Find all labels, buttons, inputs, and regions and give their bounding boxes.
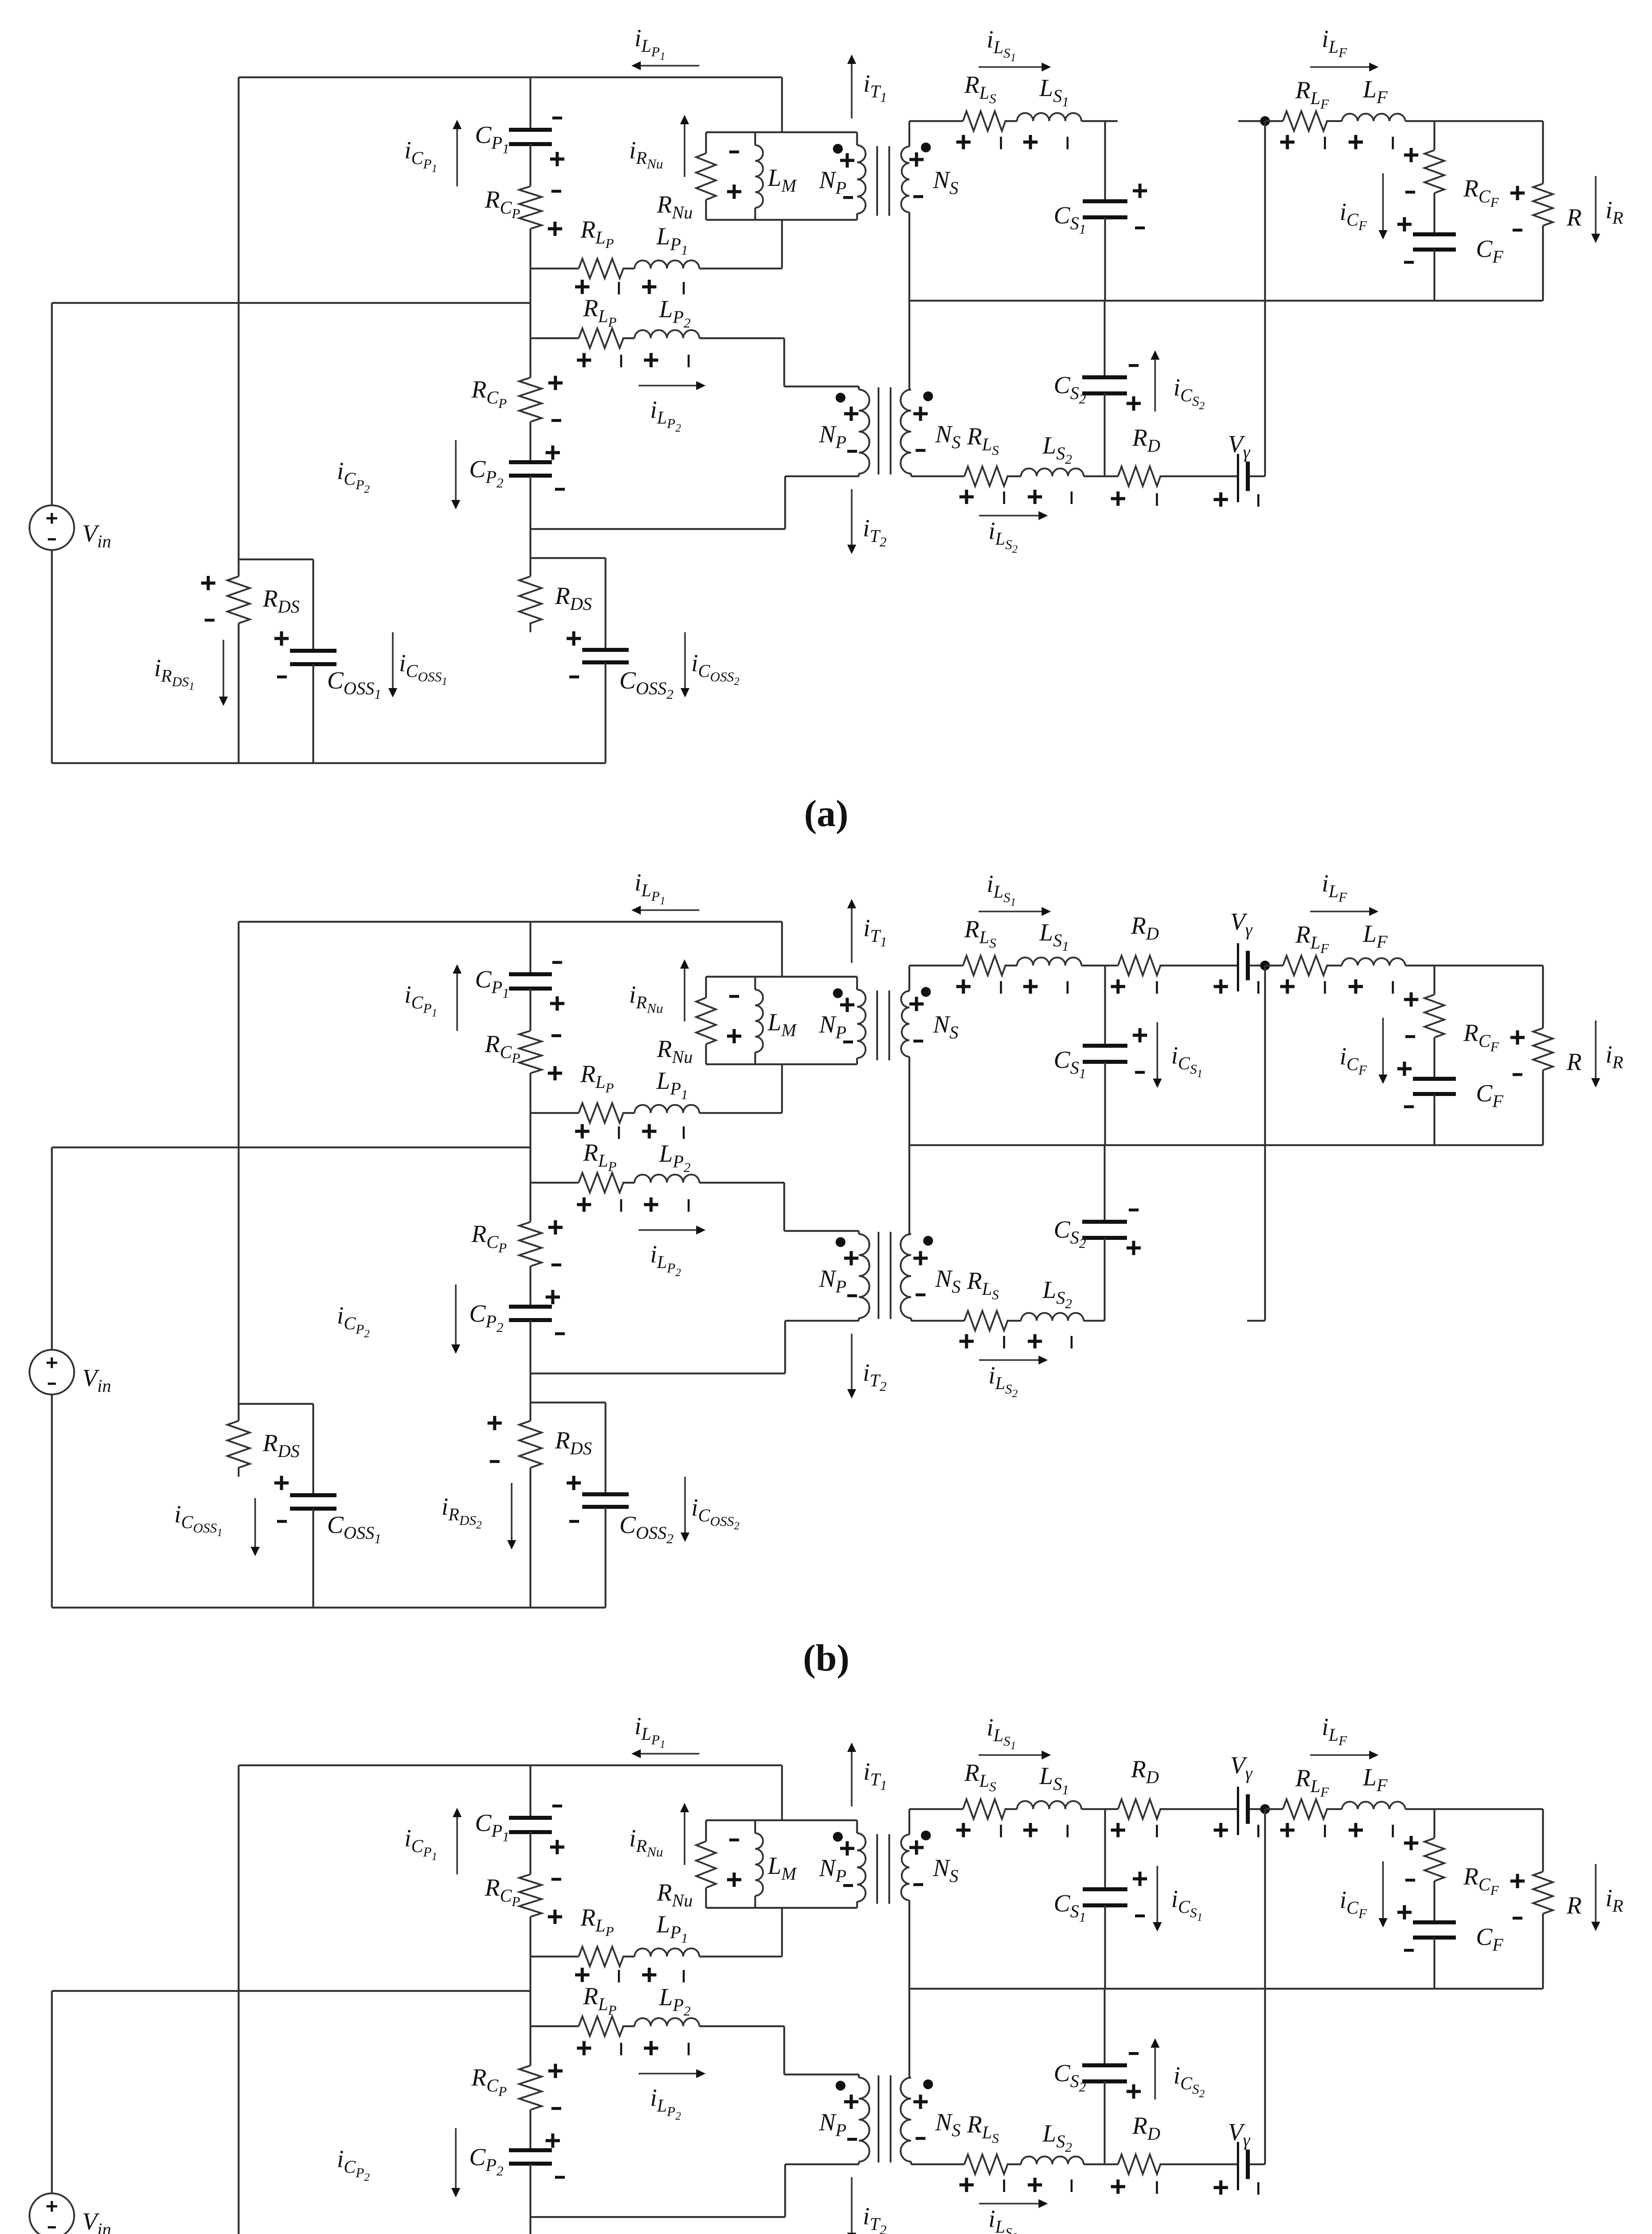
wire left leg vertical (switch 1 branch) bbox=[238, 922, 240, 1421]
resistor R (load) bbox=[1533, 1028, 1553, 1070]
wire row2 from chain bbox=[530, 2025, 579, 2027]
wire chain top (C_P1 branch) bbox=[530, 77, 531, 130]
wire R_D to V_gamma (top) bbox=[1160, 965, 1237, 966]
label i_CS2 with arrow bbox=[1154, 2048, 1156, 2100]
wire C_OSS2 branch top bbox=[530, 557, 605, 559]
wire open hook bbox=[1247, 1320, 1265, 1322]
wire L_P1 to box corner bbox=[699, 1112, 782, 1114]
resistor R_LP (row1) bbox=[579, 1947, 623, 1966]
wire R_DS2 to bottom rail bbox=[530, 1468, 531, 1608]
T1 secondary dot bbox=[921, 143, 931, 152]
wire up to L_M box bbox=[781, 1908, 783, 1957]
voltage source Vin bbox=[29, 1350, 74, 1394]
capacitor C_F bbox=[1413, 1077, 1456, 1081]
inductor L_S2 bbox=[1021, 1313, 1084, 1321]
wire center tap to N_S2 top bbox=[908, 1989, 910, 2078]
wire R_LP to L_P2 bbox=[622, 1182, 635, 1184]
wire C_OSS1 to bottom rail bbox=[312, 1509, 314, 1608]
resistor R_Nu bbox=[696, 153, 716, 200]
label i_R with arrow bbox=[1595, 1864, 1597, 1922]
wire filter node to R_LF bbox=[1265, 1808, 1283, 1810]
T1 primary dot bbox=[833, 144, 843, 154]
T2 secondary dot bbox=[923, 391, 933, 401]
wire center node to row2 node bbox=[530, 1147, 531, 1183]
label i_LP2 with arrow bbox=[639, 385, 696, 386]
T2 primary dot bbox=[836, 2081, 845, 2091]
capacitor C_S2 branch bbox=[1104, 1145, 1106, 1222]
label i_LS2 with arrow bbox=[979, 2203, 1038, 2205]
capacitor C_S2 bbox=[1082, 375, 1127, 379]
label i_COSS1 with arrow bbox=[254, 1498, 256, 1547]
wire C_F to mid rail bbox=[1433, 250, 1435, 301]
resistor R_D (diode 1 resistance) bbox=[1118, 1799, 1160, 1819]
wire row1 from chain bbox=[530, 1112, 579, 1114]
T2 primary dot bbox=[836, 1237, 845, 1247]
wire top rail drop to transformer box bbox=[781, 77, 783, 132]
wire L_M box top bbox=[706, 131, 857, 133]
wire N_P2 return to C_P2 bbox=[530, 2216, 785, 2218]
wire L_S1 to C_S1 node bbox=[1081, 120, 1105, 122]
wire L_S2 to C_S2 node bbox=[1084, 1320, 1105, 1322]
wire R_CP lower to C_P2 bbox=[530, 422, 531, 462]
wire Vin vertical upper bbox=[51, 1991, 53, 2193]
svg-text:(a): (a) bbox=[804, 793, 848, 835]
resistor R_LF bbox=[1283, 956, 1327, 975]
battery V_gamma (diode 1 threshold) bbox=[1237, 1787, 1239, 1835]
wire secondary mid rail bbox=[909, 1144, 1543, 1146]
wire R_CF to C_F bbox=[1433, 1881, 1435, 1923]
label i_T1 with arrow bbox=[851, 1752, 853, 1806]
label i_T1 with arrow bbox=[851, 64, 853, 118]
label i_T1 with arrow bbox=[851, 908, 853, 963]
wire C_P2 down to leg2 node bbox=[530, 2164, 531, 2234]
wire row2 from chain bbox=[530, 337, 579, 339]
wire R_Nu bottom lead bbox=[705, 1044, 707, 1064]
capacitor C_S1 branch bbox=[1104, 966, 1106, 1046]
label i_CP2 with arrow bbox=[455, 440, 457, 500]
resistor R_LS (secondary 2) bbox=[964, 1311, 1008, 1331]
wire C_OSS2 to bottom rail bbox=[605, 663, 606, 763]
label i_CP2 with arrow bbox=[455, 2128, 457, 2188]
wire top rail drop to transformer box bbox=[781, 922, 783, 977]
wire chain top (C_P1 branch) bbox=[530, 922, 531, 974]
resistor R_LS (secondary 1) bbox=[963, 111, 1005, 131]
inductor L_P1 bbox=[635, 1948, 699, 1957]
wire secondary row1 bbox=[909, 1808, 963, 1810]
battery V_gamma (diode 2 threshold) bbox=[1237, 2142, 1239, 2190]
T2 secondary dot bbox=[923, 2079, 933, 2089]
capacitor C_S2 bbox=[1082, 2063, 1127, 2067]
resistor R_LP (row2) bbox=[579, 328, 623, 348]
resistor R (load) bbox=[1533, 184, 1553, 226]
label i_CF with arrow bbox=[1382, 1861, 1384, 1918]
resistor R_DS1 (switch 1 on-resistance) bbox=[227, 1421, 250, 1477]
wire row2 node down bbox=[530, 1183, 531, 1222]
T1 primary dot bbox=[833, 988, 843, 998]
T2 secondary dot bbox=[923, 1236, 933, 1246]
resistor R_DS1 (switch 1 on-resistance) bbox=[227, 576, 250, 623]
svg-text:(b): (b) bbox=[803, 1637, 849, 1679]
inductor L_S1 bbox=[1017, 113, 1081, 121]
wire R_CF branch bbox=[1433, 1809, 1435, 1838]
transformer T2 core bbox=[878, 387, 879, 475]
wire Vin vertical upper bbox=[51, 1147, 53, 1350]
label i_RNu with arrow bbox=[684, 1812, 685, 1865]
label i_LP2 with arrow bbox=[639, 1229, 696, 1231]
resistor R_LP (row1) bbox=[579, 1103, 623, 1123]
wire L_S1 to C_S1 node bbox=[1081, 1808, 1105, 1810]
wire C_OSS2 to bottom rail bbox=[605, 1507, 606, 1608]
capacitor C_S1 branch bbox=[1104, 1809, 1106, 1889]
resistor R_LP (row2) bbox=[579, 2016, 623, 2036]
resistor R_CP lower bbox=[519, 1222, 542, 1266]
transformer T2 secondary winding N_S bbox=[900, 390, 911, 474]
wire L_P1 to box corner bbox=[699, 1956, 782, 1957]
resistor R_D (diode 2 resistance) bbox=[1118, 466, 1160, 486]
resistor R_LF bbox=[1283, 111, 1327, 131]
inductor L_M bbox=[754, 977, 756, 990]
label i_T2 with arrow bbox=[851, 2177, 853, 2233]
wire C_OSS1 branch vertical bbox=[312, 1404, 314, 1495]
transformer T1 core bbox=[876, 991, 878, 1060]
resistor R_DS2 (switch 2 on-resistance) bbox=[519, 1421, 542, 1468]
wire bottom rail bbox=[52, 1607, 605, 1608]
inductor L_M bbox=[754, 132, 756, 145]
wire C_S2 node to R_D (bottom) bbox=[1105, 2163, 1118, 2165]
wire N_P2 bottom lead bbox=[785, 475, 859, 477]
wire N_P2 top lead bbox=[784, 386, 859, 387]
wire down to N_P2 top lead bbox=[783, 2026, 785, 2074]
label i_CF with arrow bbox=[1382, 173, 1384, 230]
wire R_CF to C_F bbox=[1433, 193, 1435, 235]
resistor R_D (diode 1 resistance) bbox=[1118, 956, 1160, 975]
transformer T1 core bbox=[876, 1834, 878, 1904]
wire N_P2 top lead bbox=[784, 1230, 859, 1232]
wire R_CP lower to C_P2 bbox=[530, 2110, 531, 2150]
inductor L_S2 bbox=[1021, 469, 1084, 477]
wire C_S1 node to R_D (top) bbox=[1105, 965, 1118, 966]
wire C_S2 node to R_D (bottom) bbox=[1105, 475, 1118, 477]
wire down to N_P2 top lead bbox=[783, 1183, 785, 1231]
wire secondary mid rail bbox=[909, 300, 1543, 302]
wire load to mid rail bbox=[1542, 1070, 1544, 1145]
transformer T2 secondary winding N_S bbox=[900, 2078, 911, 2162]
transformer T1 secondary winding N_S bbox=[908, 1809, 910, 1835]
label i_LS1 with arrow bbox=[979, 66, 1042, 68]
wire C_P1 to R_CP bbox=[530, 144, 531, 186]
wire R_Nu top lead bbox=[705, 132, 707, 153]
wire L_P1 to box corner bbox=[699, 268, 782, 269]
inductor L_F bbox=[1342, 114, 1405, 121]
wire Vin horizontal to center tap bbox=[52, 1990, 530, 1992]
wire L_M box bottom bbox=[706, 1063, 857, 1065]
wire down to N_P2 top lead bbox=[783, 338, 785, 386]
inductor L_S1 bbox=[1017, 957, 1081, 966]
wire R_LP to L_P1 bbox=[622, 1956, 635, 1957]
wire V_gamma to filter node bbox=[1250, 965, 1265, 966]
label i_RDS1 with arrow bbox=[223, 640, 224, 697]
wire chain top (C_P1 branch) bbox=[530, 1765, 531, 1818]
wire load to mid rail bbox=[1542, 1914, 1544, 1989]
label i_CS1 with arrow bbox=[1156, 1866, 1158, 1922]
wire N_S1 bottom to center tap bbox=[908, 1057, 910, 1145]
wire secondary row1 bbox=[909, 965, 963, 966]
label i_COSS1 with arrow bbox=[392, 632, 394, 688]
capacitor C_S2 bbox=[1082, 1220, 1127, 1224]
wire N_S2 bottom lead bbox=[911, 2163, 964, 2165]
circuit (c): mode with both diodes conducting bbox=[29, 1712, 1623, 2234]
label i_RNu with arrow bbox=[684, 969, 685, 1021]
label i_CS2 with arrow bbox=[1154, 360, 1156, 412]
wire N_P2 bottom drop bbox=[784, 2164, 786, 2217]
wire L_P2 to T2 bbox=[699, 1182, 784, 1184]
battery V_gamma (diode 1 threshold) bbox=[1237, 943, 1239, 991]
wire Vin vertical lower bbox=[51, 550, 53, 763]
wire L_M box bottom bbox=[706, 1907, 857, 1909]
inductor L_S2 bbox=[1021, 2157, 1084, 2165]
wire center node to row2 node bbox=[530, 1991, 531, 2026]
capacitor C_P1 bbox=[509, 128, 552, 132]
wire top rail bbox=[239, 1764, 782, 1766]
wire L_M box top bbox=[706, 976, 857, 978]
wire open stub left of filter node bbox=[1238, 120, 1265, 122]
wire center tap to N_S2 top bbox=[908, 301, 910, 390]
wire C_P2 down to leg2 node bbox=[530, 476, 531, 558]
wire Vin vertical upper bbox=[51, 303, 53, 505]
battery V_gamma (diode 2 threshold) bbox=[1237, 454, 1239, 502]
resistor R_CP upper bbox=[519, 186, 542, 229]
wire R_CP to row1 node bbox=[530, 1917, 531, 1991]
wire N_S2 bottom lead bbox=[911, 475, 964, 477]
resistor R_CP upper bbox=[519, 1874, 542, 1917]
wire R_DS1 to bottom rail bbox=[238, 623, 240, 763]
resistor R_Nu bbox=[696, 1841, 716, 1888]
wire L_S1 to C_S1 node bbox=[1081, 965, 1105, 966]
node filter input dot bbox=[1260, 961, 1270, 970]
wire N_S1 bottom to center tap bbox=[908, 212, 910, 301]
wire R_D to V_gamma (top) bbox=[1160, 1808, 1237, 1810]
transformer T2 secondary winding N_S bbox=[900, 1234, 911, 1318]
wire center node to row2 node bbox=[530, 303, 531, 338]
wire C_P1 to R_CP bbox=[530, 988, 531, 1031]
inductor L_F bbox=[1342, 1802, 1405, 1809]
wire R_LP to L_P1 bbox=[622, 1112, 635, 1114]
transformer T2 primary winding N_P bbox=[859, 2078, 870, 2162]
wire R_CP to row1 node bbox=[530, 1073, 531, 1147]
label i_LP1 with arrow bbox=[641, 909, 699, 911]
wire V_gamma to right vertical bbox=[1250, 2163, 1265, 2165]
voltage source Vin bbox=[29, 2193, 74, 2234]
wire C_OSS2 branch vertical bbox=[605, 1403, 606, 1495]
wire Vin vertical lower bbox=[51, 1394, 53, 1608]
resistor R_CP upper bbox=[519, 1031, 542, 1073]
node filter input dot bbox=[1260, 116, 1270, 126]
wire L_F to load bbox=[1405, 120, 1543, 122]
wire C_OSS1 branch vertical bbox=[312, 559, 314, 651]
T2 primary dot bbox=[836, 393, 845, 403]
transformer T1 secondary winding N_S bbox=[908, 121, 910, 147]
capacitor C_F bbox=[1413, 1920, 1456, 1924]
inductor L_P1 bbox=[635, 1105, 699, 1113]
wire R_Nu bottom lead bbox=[705, 1888, 707, 1908]
resistor R_D (diode 2 resistance) bbox=[1118, 2154, 1160, 2174]
wire V_gamma to filter node bbox=[1250, 1808, 1265, 1810]
resistor R_CF bbox=[1425, 995, 1444, 1037]
wire R_D to V_gamma (bottom) bbox=[1160, 2163, 1237, 2165]
label i_LS1 with arrow bbox=[979, 1754, 1042, 1756]
label i_LP1 with arrow bbox=[641, 1753, 699, 1755]
wire R_CF to C_F bbox=[1433, 1037, 1435, 1079]
wire load to mid rail bbox=[1542, 226, 1544, 301]
wire N_P2 bottom drop bbox=[784, 476, 786, 529]
transformer T1 secondary winding N_S bbox=[908, 966, 910, 991]
label i_CP1 with arrow bbox=[456, 1817, 458, 1874]
label i_CS1 with arrow bbox=[1156, 1022, 1158, 1079]
inductor L_F bbox=[1342, 958, 1405, 966]
wire L_S2 to C_S2 node bbox=[1084, 2163, 1105, 2165]
svg-text:R: R bbox=[1566, 204, 1582, 231]
capacitor C_P2 bbox=[509, 2148, 552, 2152]
wire R_CP to row1 node bbox=[530, 229, 531, 303]
wire R_Nu top lead bbox=[705, 1820, 707, 1841]
capacitor C_S2 branch bbox=[1104, 301, 1106, 377]
transformer T1 primary winding N_P bbox=[856, 1820, 858, 1833]
voltage source Vin bbox=[29, 505, 74, 550]
label i_R with arrow bbox=[1595, 1020, 1597, 1078]
wire R_D to V_gamma (bottom) bbox=[1160, 475, 1237, 477]
T1 secondary dot bbox=[921, 1831, 931, 1840]
wire R_LP to L_P2 bbox=[622, 2025, 635, 2027]
wire R_CF branch bbox=[1433, 966, 1435, 995]
wire center tap to N_S2 top bbox=[908, 1145, 910, 1234]
inductor L_M bbox=[754, 1820, 756, 1833]
resistor R_LS (secondary 2) bbox=[964, 2154, 1008, 2174]
wire up to L_M box bbox=[781, 220, 783, 269]
resistor R_Nu bbox=[696, 998, 716, 1044]
wire leg2 node to R_DS2 bbox=[530, 558, 531, 576]
wire open stub at C_S1 node (diode 1 off) bbox=[1105, 120, 1118, 122]
transformer T2 primary winding N_P bbox=[859, 1234, 870, 1318]
label i_CP1 with arrow bbox=[456, 974, 458, 1031]
wire filter node to R_LF bbox=[1265, 120, 1283, 122]
wire R_CP lower to C_P2 bbox=[530, 1266, 531, 1307]
capacitor C_P2 bbox=[509, 460, 552, 464]
circuit (b): mode with diode 1 conducting bbox=[29, 869, 1623, 1608]
label i_LS2 with arrow bbox=[979, 1359, 1038, 1361]
label i_CF with arrow bbox=[1382, 1018, 1384, 1075]
wire V_gamma to right vertical bbox=[1250, 475, 1265, 477]
wire left leg vertical (switch 1 branch) bbox=[238, 1765, 240, 2234]
wire L_M box top bbox=[706, 1819, 857, 1821]
transformer T2 primary winding N_P bbox=[859, 390, 870, 474]
wire L_P2 to T2 bbox=[699, 2025, 784, 2027]
wire row2 node down bbox=[530, 2026, 531, 2066]
wire C_P1 to R_CP bbox=[530, 1832, 531, 1874]
wire N_P2 top lead bbox=[784, 2074, 859, 2075]
wire C_F to mid rail bbox=[1433, 1938, 1435, 1989]
wire load branch bbox=[1542, 966, 1544, 1028]
transformer T1 primary winding N_P bbox=[856, 977, 858, 990]
label i_COSS2 with arrow bbox=[684, 632, 686, 688]
wire bottom rail bbox=[52, 762, 605, 764]
wire top rail bbox=[239, 921, 782, 923]
wire load branch bbox=[1542, 121, 1544, 184]
node filter input dot bbox=[1260, 1804, 1270, 1814]
wire filter node vertical to bottom diode branch bbox=[1264, 121, 1266, 476]
capacitor C_S1 branch bbox=[1104, 121, 1106, 201]
wire N_P2 return to C_P2 bbox=[530, 1373, 785, 1374]
capacitor C_OSS2 bbox=[582, 1492, 629, 1496]
wire C_S1 node to R_D (top) bbox=[1105, 1808, 1118, 1810]
wire N_P2 bottom drop bbox=[784, 1321, 786, 1373]
label i_RDS2 with arrow bbox=[511, 1483, 513, 1540]
label i_LP1 with arrow bbox=[641, 65, 699, 67]
wire C_OSS1 to bottom rail bbox=[312, 664, 314, 763]
wire row2 from chain bbox=[530, 1182, 579, 1184]
label i_LP2 with arrow bbox=[639, 2073, 696, 2074]
capacitor C_OSS1 bbox=[290, 1493, 336, 1497]
T1 secondary dot bbox=[921, 987, 931, 997]
svg-text:R: R bbox=[1566, 1892, 1582, 1919]
resistor R_LS (secondary 1) bbox=[963, 956, 1005, 975]
inductor L_P2 bbox=[635, 2018, 699, 2026]
wire up to L_M box bbox=[781, 1064, 783, 1113]
inductor L_P2 bbox=[635, 1175, 699, 1183]
resistor R_CF bbox=[1425, 1838, 1444, 1881]
inductor L_S1 bbox=[1017, 1801, 1081, 1809]
wire C_F to mid rail bbox=[1433, 1094, 1435, 1145]
label i_RNu with arrow bbox=[684, 124, 685, 177]
wire leg2 node to R_DS2 bbox=[530, 1403, 531, 1421]
wire C_OSS1 branch top bbox=[239, 558, 313, 560]
label i_COSS2 with arrow bbox=[684, 1477, 686, 1533]
label i_T2 with arrow bbox=[851, 489, 853, 545]
wire filter node vertical to bottom diode branch bbox=[1264, 1809, 1266, 2164]
transformer T2 core bbox=[878, 2075, 879, 2163]
wire top rail drop to transformer box bbox=[781, 1765, 783, 1820]
wire row1 from chain bbox=[530, 1956, 579, 1957]
wire R_CF branch bbox=[1433, 121, 1435, 150]
transformer T1 core bbox=[876, 146, 878, 216]
capacitor C_P1 bbox=[509, 1816, 552, 1820]
label i_CP1 with arrow bbox=[456, 129, 458, 186]
transformer T1 primary winding N_P bbox=[856, 132, 858, 145]
label i_LF with arrow bbox=[1310, 66, 1369, 68]
capacitor C_P2 bbox=[509, 1305, 552, 1309]
transformer T2 core bbox=[878, 1232, 879, 1319]
resistor R_LP (row2) bbox=[579, 1173, 623, 1193]
capacitor C_S1 bbox=[1083, 1887, 1127, 1891]
wire filter node vertical (ends open, diode 2 off) bbox=[1264, 966, 1266, 1321]
wire N_P2 bottom lead bbox=[785, 2163, 859, 2165]
inductor L_P1 bbox=[635, 260, 699, 269]
label i_T2 with arrow bbox=[851, 1334, 853, 1389]
wire L_M box bottom bbox=[706, 219, 857, 221]
resistor R_DS2 (switch 2 on-resistance) bbox=[519, 576, 542, 632]
capacitor C_F bbox=[1413, 232, 1456, 236]
capacitor C_P1 bbox=[509, 972, 552, 976]
wire filter node to R_LF bbox=[1265, 965, 1283, 966]
T1 primary dot bbox=[833, 1832, 843, 1842]
wire Vin horizontal to center tap bbox=[52, 302, 530, 304]
resistor R (load) bbox=[1533, 1872, 1553, 1914]
wire L_P2 to T2 bbox=[699, 337, 784, 339]
inductor L_P2 bbox=[635, 330, 699, 338]
resistor R_CF bbox=[1425, 150, 1444, 193]
wire row2 node down bbox=[530, 338, 531, 378]
label i_LF with arrow bbox=[1310, 1754, 1369, 1756]
wire secondary row1 bbox=[909, 120, 963, 122]
